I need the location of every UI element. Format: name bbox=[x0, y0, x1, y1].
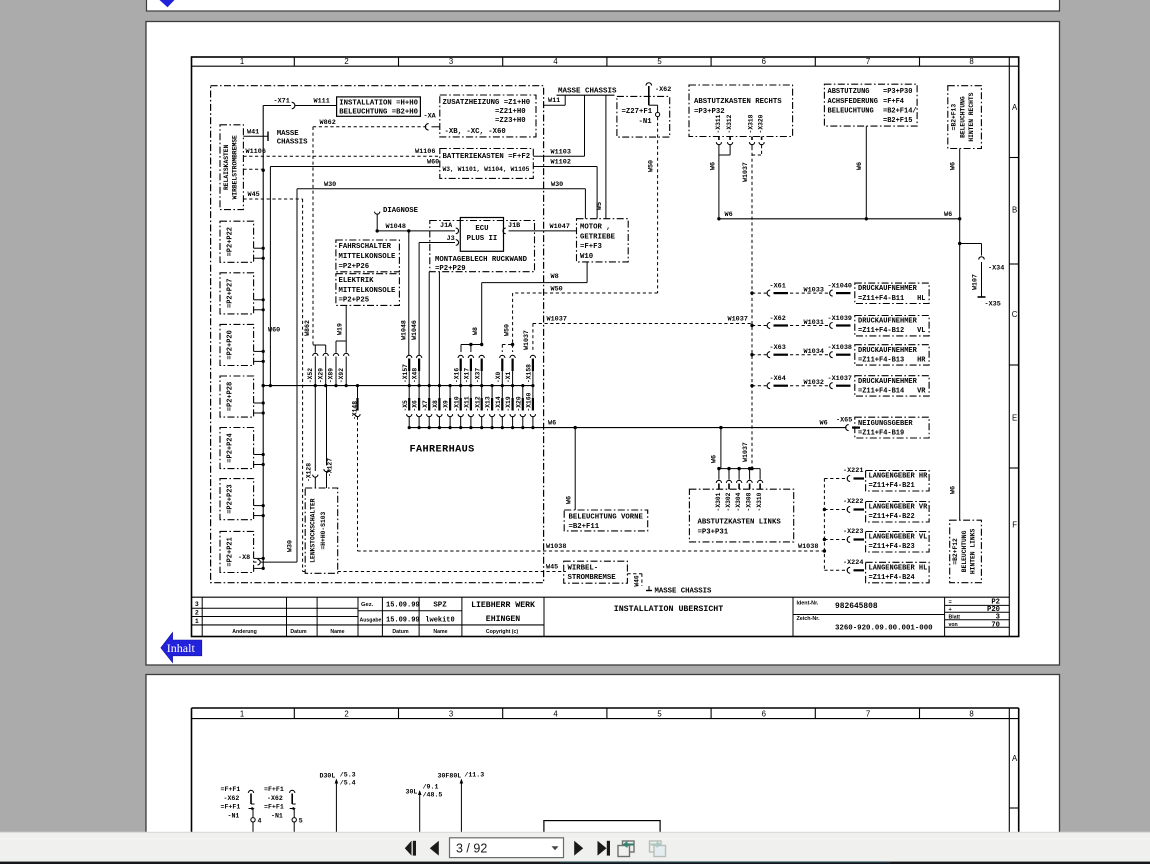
svg-text:W6: W6 bbox=[565, 496, 573, 504]
svg-text:DRUCKAUFNEHMER: DRUCKAUFNEHMER bbox=[858, 285, 918, 293]
svg-text:HINTEN LINKS: HINTEN LINKS bbox=[970, 529, 977, 575]
svg-text:-X1037: -X1037 bbox=[828, 375, 852, 383]
box =Z27+F1 -N1 (Zusatzheizung unit) bbox=[617, 96, 670, 137]
svg-text:8: 8 bbox=[969, 57, 973, 66]
svg-text:NEIGUNGSGEBER: NEIGUNGSGEBER bbox=[858, 420, 913, 428]
svg-text:=F+F1: =F+F1 bbox=[264, 804, 284, 811]
svg-text:A: A bbox=[1012, 754, 1018, 763]
svg-text:W45: W45 bbox=[248, 191, 260, 199]
svg-text:VR: VR bbox=[917, 387, 926, 395]
svg-text:MOTOR ,: MOTOR , bbox=[580, 224, 611, 232]
svg-text:4: 4 bbox=[258, 818, 262, 825]
page2 partial box bbox=[544, 821, 660, 846]
title block ident numbers bbox=[797, 600, 934, 632]
svg-text:STROMBREMSE: STROMBREMSE bbox=[568, 574, 617, 582]
svg-text:=P3+P31: =P3+P31 bbox=[698, 528, 729, 536]
svg-text:GETRIEBE: GETRIEBE bbox=[580, 233, 616, 241]
svg-text:=F+F3: =F+F3 bbox=[580, 243, 603, 251]
svg-text:Zeich-Nr.: Zeich-Nr. bbox=[797, 616, 821, 622]
svg-text:BELEUCHTUNG: BELEUCHTUNG bbox=[828, 107, 874, 115]
wire W1047 (ECU J1B to motor) bbox=[503, 222, 577, 234]
svg-text:LANGENGEBER VL: LANGENGEBER VL bbox=[869, 534, 928, 542]
svg-text:1: 1 bbox=[240, 57, 244, 66]
svg-text:W6: W6 bbox=[949, 486, 957, 494]
box =B2+F12 BELEUCHTUNG HINTEN LINKS bbox=[950, 520, 982, 583]
svg-text:=Z11+F4-B23: =Z11+F4-B23 bbox=[869, 543, 915, 551]
Inhalt navigation button bbox=[161, 632, 202, 662]
wire W862 dashed to -XA bbox=[304, 113, 440, 345]
wire stub dashed to bus bbox=[243, 168, 263, 170]
svg-text:=F+F1: =F+F1 bbox=[221, 786, 241, 793]
svg-text:/9.1: /9.1 bbox=[423, 784, 439, 791]
svg-text:W1037: W1037 bbox=[742, 442, 749, 462]
right ruler line bbox=[1008, 57, 1010, 637]
svg-text:W1038: W1038 bbox=[546, 543, 566, 551]
title block entries bbox=[360, 601, 536, 625]
svg-text:LANGENGEBER VR: LANGENGEBER VR bbox=[869, 504, 929, 512]
svg-text:-X6: -X6 bbox=[412, 400, 419, 412]
svg-text:-X34: -X34 bbox=[988, 265, 1004, 273]
svg-text:W11: W11 bbox=[548, 97, 560, 105]
svg-text:W1037: W1037 bbox=[547, 316, 567, 324]
svg-text:=Z27+F1: =Z27+F1 bbox=[622, 108, 653, 116]
cabinet box =P2+P24 bbox=[220, 428, 254, 469]
svg-text:-X62: -X62 bbox=[770, 315, 786, 323]
svg-text:-X37: -X37 bbox=[474, 368, 481, 383]
svg-text:W1031: W1031 bbox=[804, 319, 824, 327]
svg-text:W6: W6 bbox=[548, 420, 556, 428]
svg-text:=Z11+F4-B21: =Z11+F4-B21 bbox=[869, 482, 915, 490]
svg-text:VL: VL bbox=[917, 327, 925, 335]
cab harness top bus bbox=[263, 385, 533, 387]
svg-text:W1037: W1037 bbox=[523, 330, 530, 350]
net D30L bbox=[320, 772, 356, 846]
wire W60 (battery box to bus) bbox=[268, 159, 440, 388]
svg-text:=B2+F14/: =B2+F14/ bbox=[883, 107, 917, 115]
svg-text:-X312: -X312 bbox=[726, 114, 733, 133]
svg-text:-X62: -X62 bbox=[267, 795, 283, 802]
svg-text:CHASSIS: CHASSIS bbox=[277, 139, 308, 147]
svg-text:=B2+F13: =B2+F13 bbox=[951, 104, 958, 131]
wire W50 dashed (heater -X62 to -X0/-X1) bbox=[502, 117, 657, 352]
svg-text:BELEUCHTUNG =B2+H0: BELEUCHTUNG =B2+H0 bbox=[339, 109, 418, 117]
svg-text:DRUCKAUFNEHMER: DRUCKAUFNEHMER bbox=[858, 378, 918, 386]
schematic page 1 (sheet 3) bbox=[146, 22, 1060, 666]
svg-text:=P2+P24: =P2+P24 bbox=[227, 433, 235, 462]
svg-text:W1048: W1048 bbox=[401, 320, 408, 340]
svg-text:-X8: -X8 bbox=[238, 554, 250, 562]
svg-text:W6: W6 bbox=[709, 162, 717, 170]
svg-text:J3: J3 bbox=[447, 235, 455, 243]
title INSTALLATION UBERSICHT bbox=[614, 605, 724, 614]
svg-text:W1046: W1046 bbox=[411, 320, 418, 340]
svg-text:-X7: -X7 bbox=[422, 400, 429, 412]
svg-text:BATTERIEKASTEN =F+F2: BATTERIEKASTEN =F+F2 bbox=[443, 153, 531, 161]
toolbar history-forward icon (disabled) bbox=[650, 841, 666, 857]
svg-text:-N1: -N1 bbox=[228, 812, 240, 819]
FAHRERHAUS label bbox=[410, 445, 475, 456]
svg-text:Inhalt: Inhalt bbox=[167, 641, 196, 655]
svg-text:Anderung: Anderung bbox=[232, 629, 257, 635]
sensor row -X63 W1034 -X1038 DRUCKAUFNEHMER =Z11+F4-B13 bbox=[752, 344, 929, 365]
svg-text:W6: W6 bbox=[711, 455, 719, 463]
svg-text:W30: W30 bbox=[287, 540, 294, 552]
svg-text:-N1: -N1 bbox=[639, 118, 653, 126]
svg-text:W8: W8 bbox=[551, 273, 559, 281]
svg-text:=P2+P27: =P2+P27 bbox=[227, 279, 235, 308]
svg-text:-X308: -X308 bbox=[746, 492, 753, 511]
svg-text:=Z11+F4-B14: =Z11+F4-B14 bbox=[858, 387, 904, 395]
svg-text:=B2+F15: =B2+F15 bbox=[883, 117, 912, 125]
wire W1106 (relay box to battery box, dashed) bbox=[243, 148, 439, 156]
svg-text:-X1040: -X1040 bbox=[828, 283, 852, 291]
box ELEKTRIK MITTELKONSOLE =P2+P25 bbox=[336, 274, 400, 306]
wire W6 from ABSTUTZUNG bbox=[856, 126, 866, 219]
box ABSTUTZKASTEN RECHTS =P3+P32 bbox=[689, 85, 793, 137]
svg-text:-X61: -X61 bbox=[770, 283, 786, 291]
svg-text:DIAGNOSE: DIAGNOSE bbox=[383, 207, 419, 215]
svg-text:J1B: J1B bbox=[508, 222, 520, 230]
svg-text:BELEUCHTUNG: BELEUCHTUNG bbox=[961, 530, 968, 572]
svg-text:-X0: -X0 bbox=[495, 371, 502, 383]
svg-text:EHINGEN: EHINGEN bbox=[486, 615, 520, 624]
svg-text:=Z11+F4-B12: =Z11+F4-B12 bbox=[858, 327, 904, 335]
svg-text:BELEUCHTUNG VORNE: BELEUCHTUNG VORNE bbox=[569, 513, 644, 521]
cab harness upper connectors bbox=[402, 355, 536, 385]
ground MASSE CHASSIS (W46) bbox=[627, 574, 712, 596]
svg-text:-X48: -X48 bbox=[412, 368, 419, 383]
svg-text:J1A: J1A bbox=[440, 222, 453, 230]
svg-text:W19: W19 bbox=[337, 323, 344, 335]
row letters A-F bbox=[1012, 103, 1018, 529]
svg-text:W3, W1101, W1104, W1105: W3, W1101, W1104, W1105 bbox=[443, 166, 530, 173]
svg-text:-X318: -X318 bbox=[748, 114, 755, 133]
stubs from cabinets to bus bbox=[254, 247, 265, 570]
svg-text:W107: W107 bbox=[972, 274, 979, 290]
page2 row letter A bbox=[1009, 754, 1018, 808]
svg-text:W60: W60 bbox=[268, 327, 280, 335]
svg-text:-X65: -X65 bbox=[836, 416, 852, 424]
svg-text:W862: W862 bbox=[304, 320, 311, 336]
svg-text:HR: HR bbox=[917, 356, 926, 364]
blue arrow fragment (Inhalt button of previous page) bbox=[160, 0, 175, 7]
column ruler ticks bbox=[294, 57, 919, 66]
svg-text:-X158: -X158 bbox=[526, 364, 533, 383]
wires from console to harness (W862/W19 group) bbox=[307, 305, 349, 387]
svg-text:-XA: -XA bbox=[424, 113, 437, 121]
connectors above ABSTUTZKASTEN LINKS bbox=[716, 469, 762, 490]
FAHRERHAUS dash-dot boundary bbox=[211, 86, 544, 583]
svg-text:1: 1 bbox=[240, 709, 244, 718]
svg-text:3: 3 bbox=[449, 709, 453, 718]
svg-text:PLUS II: PLUS II bbox=[467, 235, 498, 243]
wires ECU panel to harness bbox=[401, 272, 440, 386]
svg-text:-X35: -X35 bbox=[985, 301, 1001, 309]
svg-text:Ident-Nr.: Ident-Nr. bbox=[797, 600, 819, 606]
svg-text:W1106: W1106 bbox=[415, 148, 435, 156]
svg-text:=P2+P28: =P2+P28 bbox=[227, 382, 235, 411]
wire W45 dashed (relay box to Wirbelstrombremse) bbox=[243, 191, 566, 572]
toolbar previous-page button bbox=[430, 841, 439, 856]
svg-text:Datum: Datum bbox=[290, 629, 307, 635]
svg-text:-X71: -X71 bbox=[274, 98, 290, 106]
svg-text:W6: W6 bbox=[856, 162, 864, 170]
svg-text:-X128: -X128 bbox=[305, 463, 312, 482]
svg-text:ABSTUTZUNG: ABSTUTZUNG bbox=[828, 88, 870, 96]
svg-text:MITTELKONSOLE: MITTELKONSOLE bbox=[339, 287, 397, 295]
sensor row -X223 LANGENGEBER VL bbox=[824, 528, 929, 552]
svg-text:7: 7 bbox=[866, 709, 870, 718]
svg-text:W1037: W1037 bbox=[728, 316, 748, 324]
svg-text:ACHSFEDERUNG: ACHSFEDERUNG bbox=[828, 98, 878, 106]
svg-text:W50: W50 bbox=[551, 285, 563, 293]
svg-text:LIEBHERR WERK: LIEBHERR WERK bbox=[471, 601, 535, 610]
ground symbol MASSE CHASSIS (W41) bbox=[243, 128, 308, 146]
box MOTOR GETRIEBE =F+F3 bbox=[577, 219, 629, 262]
svg-text:/5.3: /5.3 bbox=[340, 772, 356, 779]
svg-text:FAHRERHAUS: FAHRERHAUS bbox=[410, 445, 475, 456]
svg-text:2: 2 bbox=[344, 57, 348, 66]
box =B2+F13 BELEUCHTUNG HINTEN RECHTS bbox=[948, 86, 982, 149]
svg-text:1: 1 bbox=[195, 618, 199, 625]
toolbar page combo box 3 / 92 bbox=[450, 838, 564, 858]
svg-text:8: 8 bbox=[969, 709, 973, 718]
cabinet box =P2+P21 bbox=[220, 531, 254, 572]
svg-text:-X222: -X222 bbox=[843, 498, 863, 506]
svg-text:-X63: -X63 bbox=[770, 344, 786, 352]
svg-text:6: 6 bbox=[762, 709, 766, 718]
svg-text:W1032: W1032 bbox=[804, 379, 824, 387]
relay box =H+H0 RELAISKASTEN WIRBELSTROMBREMSE bbox=[220, 125, 243, 210]
svg-text:=P2+P25: =P2+P25 bbox=[339, 297, 370, 305]
svg-text:W45: W45 bbox=[546, 564, 558, 572]
sensor row -X222 LANGENGEBER VR bbox=[824, 498, 929, 522]
svg-text:D30L: D30L bbox=[320, 773, 336, 780]
wire W1037 dashed branch to -X158 bbox=[523, 316, 752, 352]
svg-text:W1037: W1037 bbox=[742, 162, 749, 182]
svg-text:-X92: -X92 bbox=[338, 368, 345, 383]
svg-text:MONTAGEBLECH RUCKWAND: MONTAGEBLECH RUCKWAND bbox=[435, 256, 528, 264]
svg-text:=F+F1: =F+F1 bbox=[221, 804, 241, 811]
svg-text:Blatt: Blatt bbox=[949, 614, 961, 620]
svg-text:LENKSTOCKSCHALTER: LENKSTOCKSCHALTER bbox=[309, 498, 316, 562]
svg-text:MASSE CHASSIS: MASSE CHASSIS bbox=[558, 87, 617, 95]
svg-text:30L: 30L bbox=[406, 789, 418, 796]
svg-text:HL: HL bbox=[917, 295, 925, 303]
svg-text:BELEUCHTUNG: BELEUCHTUNG bbox=[959, 96, 966, 138]
svg-text:MASSE: MASSE bbox=[277, 130, 300, 138]
svg-text:15.09.99: 15.09.99 bbox=[386, 602, 420, 610]
svg-text:=H+H0-S103: =H+H0-S103 bbox=[320, 511, 327, 549]
cabinet box =P2+P20 bbox=[220, 324, 254, 365]
svg-text:-XB, -XC, -X60: -XB, -XC, -X60 bbox=[445, 128, 506, 136]
toolbar next-page button bbox=[574, 841, 583, 856]
svg-text:-X1038: -X1038 bbox=[828, 344, 852, 352]
svg-text:MITTELKONSOLE: MITTELKONSOLE bbox=[339, 253, 397, 261]
svg-text:=B2+F12: =B2+F12 bbox=[952, 538, 959, 565]
svg-text:WIRBELSTROMBREMSE: WIRBELSTROMBREMSE bbox=[232, 135, 239, 199]
svg-text:-X302: -X302 bbox=[725, 492, 732, 511]
box INSTALLATION BELEUCHTUNG =H+H0/=B2+H0 bbox=[337, 97, 421, 117]
wire W8 (motor to -X16/-X17/-X37) bbox=[461, 262, 587, 352]
svg-text:W41: W41 bbox=[247, 128, 259, 136]
svg-text:W46: W46 bbox=[633, 575, 640, 587]
svg-text:=Z11+F4-B19: =Z11+F4-B19 bbox=[858, 430, 904, 438]
svg-text:-X127: -X127 bbox=[327, 458, 334, 477]
cab harness bottom bus W6 bbox=[409, 420, 846, 430]
svg-text:von: von bbox=[949, 622, 958, 628]
sensor row -X224 LANGENGEBER HL bbox=[824, 559, 929, 583]
sensor NEIGUNGSGEBER =Z11+F4-B19 bbox=[836, 416, 929, 438]
svg-text:=P2+P26: =P2+P26 bbox=[339, 263, 370, 271]
svg-text:-X320: -X320 bbox=[758, 114, 765, 133]
svg-text:-X301: -X301 bbox=[715, 492, 722, 511]
svg-text:W10: W10 bbox=[580, 253, 593, 261]
wire -X71 / W111 to installation box bbox=[263, 98, 336, 109]
wire W6 right vertical bbox=[949, 149, 959, 219]
wire W6 down right side bbox=[949, 219, 961, 520]
svg-text:=Z11+F4-B13: =Z11+F4-B13 bbox=[858, 356, 904, 364]
svg-text:=Z11+F4-B22: =Z11+F4-B22 bbox=[869, 513, 915, 521]
svg-text:INSTALLATION =H+H0: INSTALLATION =H+H0 bbox=[339, 100, 418, 108]
svg-text:=F+F1: =F+F1 bbox=[264, 786, 284, 793]
svg-text:=P2+P20: =P2+P20 bbox=[227, 330, 235, 359]
toolbar first-page button bbox=[405, 841, 416, 856]
svg-text:DRUCKAUFNEHMER: DRUCKAUFNEHMER bbox=[858, 347, 918, 355]
svg-text:HINTEN RECHTS: HINTEN RECHTS bbox=[968, 92, 975, 141]
svg-text:W1034: W1034 bbox=[804, 348, 824, 356]
svg-text:70: 70 bbox=[991, 621, 1000, 629]
svg-text:W30: W30 bbox=[324, 181, 336, 189]
svg-text:W1102: W1102 bbox=[551, 159, 571, 167]
svg-text:-X19: -X19 bbox=[505, 396, 512, 411]
sensor row -X221 LANGENGEBER HR bbox=[824, 467, 929, 491]
wire W6 to front lights bbox=[565, 428, 575, 510]
svg-text:-X223: -X223 bbox=[843, 528, 863, 536]
column numbers 1-8 bbox=[240, 57, 974, 66]
box BATTERIEKASTEN =F+F2 bbox=[440, 149, 534, 179]
svg-text:-X64: -X64 bbox=[770, 375, 786, 383]
wire W1103 (battery to ground) bbox=[533, 95, 584, 156]
svg-text:-X62: -X62 bbox=[655, 86, 671, 94]
svg-text:ECU: ECU bbox=[475, 225, 488, 233]
svg-text:W1103: W1103 bbox=[551, 148, 571, 156]
svg-text:-X14: -X14 bbox=[495, 396, 502, 411]
svg-text:15.09.99: 15.09.99 bbox=[386, 617, 420, 625]
previous page bottom strip bbox=[147, 0, 1060, 11]
page2 column ticks bbox=[294, 708, 919, 719]
svg-text:-X20: -X20 bbox=[515, 396, 522, 411]
svg-text:-X12: -X12 bbox=[474, 396, 481, 411]
svg-text:=P2+P21: =P2+P21 bbox=[227, 537, 235, 566]
svg-text:W111: W111 bbox=[314, 98, 330, 106]
svg-text:W1106: W1106 bbox=[246, 148, 266, 156]
connector DIAGNOSE bbox=[375, 207, 419, 231]
left distribution bus W60/W30 vertical bbox=[262, 106, 265, 569]
svg-text:=Z11+F4-B11: =Z11+F4-B11 bbox=[858, 295, 904, 303]
svg-text:ABSTUTZKASTEN RECHTS: ABSTUTZKASTEN RECHTS bbox=[694, 98, 782, 106]
cab harness connectors -X5..-X160 bbox=[402, 384, 536, 429]
svg-text:-X1: -X1 bbox=[505, 371, 512, 383]
svg-text:=B2+F11: =B2+F11 bbox=[569, 523, 600, 531]
svg-text:FAHRSCHALTER: FAHRSCHALTER bbox=[339, 243, 392, 251]
svg-text:-X224: -X224 bbox=[843, 559, 863, 567]
bottom dark strip bbox=[0, 862, 1150, 864]
svg-text:-X221: -X221 bbox=[843, 467, 863, 475]
title block grid bbox=[192, 597, 1010, 636]
sensor row -X64 W1032 -X1037 DRUCKAUFNEHMER =Z11+F4-B14 bbox=[752, 375, 929, 396]
svg-text:982645808: 982645808 bbox=[835, 602, 878, 611]
svg-text:MASSE CHASSIS: MASSE CHASSIS bbox=[655, 588, 713, 596]
svg-text:W6: W6 bbox=[944, 211, 952, 219]
svg-text:-X29: -X29 bbox=[317, 368, 324, 383]
svg-text:W1033: W1033 bbox=[804, 287, 824, 295]
svg-text:=P2+P23: =P2+P23 bbox=[227, 484, 235, 513]
connectors below ABSTUTZKASTEN RECHTS bbox=[709, 137, 764, 219]
svg-text:W862: W862 bbox=[320, 119, 336, 127]
svg-text:30F80L: 30F80L bbox=[438, 773, 462, 780]
wire W11 bbox=[544, 95, 566, 105]
connector -X148 bbox=[351, 384, 360, 551]
cabinet box =P2+P28 bbox=[220, 376, 254, 417]
svg-text:2: 2 bbox=[195, 610, 199, 617]
svg-text:=P2+P22: =P2+P22 bbox=[227, 227, 235, 256]
svg-text:W50: W50 bbox=[648, 160, 656, 172]
cabinet box =P2+P22 bbox=[220, 221, 254, 262]
svg-text:-X160: -X160 bbox=[526, 392, 533, 411]
toolbar last-page button bbox=[598, 841, 611, 856]
stub -X34/-X35 (W107) bbox=[960, 244, 1005, 309]
svg-text:=Z11+F4-B24: =Z11+F4-B24 bbox=[869, 574, 915, 582]
svg-text:3: 3 bbox=[449, 57, 453, 66]
svg-text:WIRBEL-: WIRBEL- bbox=[568, 564, 599, 572]
wire W6 to left support box bbox=[711, 428, 761, 471]
svg-text:RELAISKASTEN: RELAISKASTEN bbox=[223, 144, 230, 190]
svg-text:-X52: -X52 bbox=[307, 368, 314, 383]
svg-text:-X157: -X157 bbox=[402, 364, 409, 383]
svg-text:/5.4: /5.4 bbox=[340, 780, 356, 787]
svg-text:=Z23+H0: =Z23+H0 bbox=[495, 117, 526, 125]
svg-text:W6: W6 bbox=[949, 162, 957, 170]
top ruler line bbox=[192, 65, 1019, 67]
svg-text:3: 3 bbox=[195, 601, 199, 608]
svg-text:W60: W60 bbox=[427, 159, 439, 167]
sensor row -X62 W1031 -X1039 DRUCKAUFNEHMER =Z11+F4-B12 bbox=[752, 315, 929, 336]
ground net MASSE CHASSIS (top) bbox=[557, 87, 618, 95]
page2 drawing frame bbox=[192, 708, 1019, 845]
svg-text:-X17: -X17 bbox=[464, 368, 471, 383]
svg-text:Datum: Datum bbox=[392, 629, 409, 635]
page2 column numbers bbox=[240, 709, 974, 718]
box ABSTUTZUNG ACHSFEDERUNG BELEUCHTUNG bbox=[824, 84, 917, 126]
box BELEUCHTUNG VORNE =B2+F11 bbox=[564, 510, 648, 531]
svg-text:5: 5 bbox=[299, 818, 303, 825]
svg-text:LANGENGEBER HR: LANGENGEBER HR bbox=[869, 473, 929, 481]
cabinet box =P2+P27 bbox=[220, 273, 254, 314]
svg-text:7: 7 bbox=[866, 57, 870, 66]
svg-text:-X62: -X62 bbox=[224, 795, 240, 802]
box MONTAGEBLECH RUCKWAND =P2+P29 bbox=[430, 221, 535, 274]
title block footer labels bbox=[232, 629, 518, 635]
drawing frame border bbox=[192, 57, 1019, 637]
wire W30 bbox=[287, 181, 586, 562]
net 30L bbox=[406, 784, 443, 846]
svg-text:W50: W50 bbox=[504, 324, 511, 336]
svg-text:4: 4 bbox=[553, 57, 558, 66]
svg-text:-X13: -X13 bbox=[485, 396, 492, 411]
wire W1037 dashed main vertical bbox=[742, 147, 754, 470]
svg-text:LANGENGEBER HL: LANGENGEBER HL bbox=[869, 564, 928, 572]
